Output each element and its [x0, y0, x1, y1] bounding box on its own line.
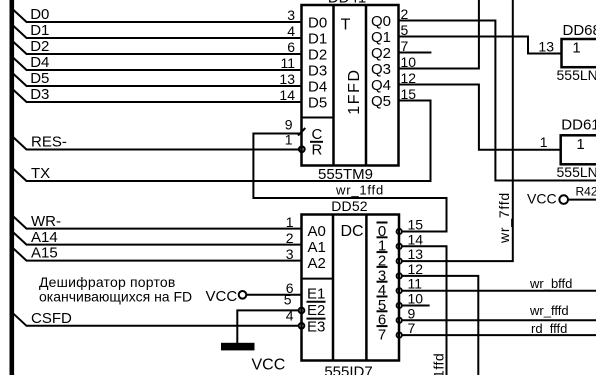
svg-text:VCC: VCC	[206, 288, 238, 305]
svg-text:wr_bffd: wr_bffd	[529, 276, 572, 291]
svg-text:E3: E3	[307, 318, 325, 335]
svg-text:D0: D0	[30, 6, 49, 23]
wire D4	[13, 58, 302, 71]
svg-text:3: 3	[286, 246, 294, 262]
svg-text:13: 13	[538, 39, 554, 55]
svg-text:555TM9: 555TM9	[318, 166, 373, 183]
svg-text:9: 9	[285, 117, 293, 133]
wire to R42	[568, 199, 596, 201]
wire E1	[247, 294, 302, 296]
ground (power bar)	[221, 343, 255, 351]
svg-text:Q3: Q3	[371, 61, 391, 78]
wire D0	[13, 10, 302, 23]
node R inversion bubble	[299, 147, 305, 153]
svg-text:A14: A14	[31, 229, 58, 246]
wire overbar 4	[377, 281, 388, 283]
svg-text:D4: D4	[308, 78, 327, 95]
svg-text:1: 1	[540, 134, 548, 150]
svg-text:555LN1: 555LN1	[557, 67, 596, 83]
svg-text:11: 11	[408, 276, 423, 292]
svg-text:7: 7	[378, 327, 386, 344]
wire out1 wr_3ffd down to bottom edge	[402, 246, 447, 375]
wire overbar 6	[377, 310, 388, 312]
wire E2 overbar	[307, 301, 326, 303]
svg-text:6: 6	[287, 39, 295, 55]
svg-text:3: 3	[287, 7, 295, 23]
svg-text:10: 10	[401, 54, 417, 70]
bus (vertical data/address bus trunk)	[10, 0, 15, 375]
wire A14	[13, 232, 302, 245]
svg-text:9: 9	[408, 305, 416, 321]
wire DD52 E section divider	[302, 278, 334, 280]
wire clock slash	[298, 128, 305, 136]
wire E2 to power bar	[237, 310, 298, 343]
node output bubble 6	[397, 318, 402, 323]
svg-text:Q4: Q4	[371, 77, 391, 94]
wire CSFD	[13, 313, 299, 326]
svg-text:оканчивающихся на FD: оканчивающихся на FD	[39, 289, 192, 305]
wire overbar 3	[377, 266, 388, 268]
wire RES-	[13, 137, 299, 150]
svg-text:TX: TX	[31, 165, 50, 182]
wire overbar 2	[377, 251, 388, 253]
wire DD52 divider left	[332, 215, 335, 361]
svg-text:2: 2	[286, 230, 294, 246]
svg-text:D2: D2	[308, 46, 327, 63]
svg-text:DD41: DD41	[328, 0, 366, 7]
wire D5	[13, 74, 302, 87]
wire D2	[13, 42, 302, 55]
svg-text:D2: D2	[30, 38, 49, 55]
svg-text:14: 14	[408, 231, 424, 247]
svg-text:D5: D5	[30, 70, 49, 87]
node E3 bubble	[299, 323, 305, 329]
wire TM9 divider left	[332, 5, 335, 166]
svg-text:1FFD: 1FFD	[346, 68, 363, 114]
svg-text:wr_7ffd: wr_7ffd	[496, 192, 512, 244]
wire DD52 divider right	[365, 215, 368, 361]
wire out5 stub	[402, 305, 430, 307]
svg-text:wr_1ffd: wr_1ffd	[431, 353, 447, 375]
wire E3 overbar	[307, 318, 326, 320]
wire out2 wr_7ffd up to top edge	[402, 0, 513, 261]
svg-text:1: 1	[572, 40, 580, 57]
node output bubble 7	[397, 332, 402, 337]
wire A15	[13, 248, 302, 261]
svg-text:1: 1	[286, 214, 294, 230]
wire TM9 CR section divider	[302, 117, 334, 119]
svg-text:D3: D3	[308, 62, 327, 79]
svg-text:5: 5	[401, 22, 409, 38]
svg-text:555LN1: 555LN1	[557, 164, 596, 180]
svg-text:555ID7: 555ID7	[324, 364, 372, 375]
wire overbar 7	[377, 325, 388, 327]
svg-text:CSFD: CSFD	[31, 310, 72, 327]
svg-text:1: 1	[576, 136, 584, 153]
svg-text:DD68: DD68	[563, 22, 596, 39]
svg-text:7: 7	[408, 320, 416, 336]
wire overbar 5	[377, 296, 388, 298]
svg-text:13: 13	[279, 71, 295, 87]
svg-text:12: 12	[401, 70, 417, 86]
svg-text:D3: D3	[30, 86, 49, 103]
svg-text:RES-: RES-	[31, 134, 67, 151]
diagram DD52 555ID7 decoder outer box	[302, 215, 400, 361]
wire Q0 (pin 2) long route to right edge	[399, 21, 596, 181]
svg-text:C: C	[312, 126, 323, 143]
node VCC circle	[559, 195, 568, 204]
svg-text:wr_1ffd: wr_1ffd	[335, 183, 384, 198]
svg-text:Q2: Q2	[371, 45, 391, 62]
svg-text:T: T	[341, 17, 351, 34]
wire out6 wr_fffd to right edge	[402, 319, 596, 321]
svg-text:D1: D1	[308, 30, 327, 47]
svg-text:D5: D5	[308, 94, 327, 111]
svg-text:5: 5	[284, 292, 292, 308]
svg-text:D1: D1	[30, 22, 49, 39]
svg-text:A1: A1	[308, 239, 326, 256]
svg-text:14: 14	[279, 87, 295, 103]
svg-text:D0: D0	[308, 14, 327, 31]
wire Q2 (pin 7) stub	[399, 52, 432, 54]
svg-text:VCC: VCC	[252, 357, 286, 374]
svg-text:WR-: WR-	[31, 213, 61, 230]
svg-text:12: 12	[408, 261, 424, 277]
wire out7 rd_fffd to right edge	[402, 334, 596, 336]
wire D3	[13, 90, 302, 103]
node E2 bubble	[299, 308, 305, 314]
node output bubble 2	[397, 258, 402, 263]
svg-text:4: 4	[287, 23, 295, 39]
svg-text:A0: A0	[308, 223, 326, 240]
node output bubble 5	[397, 303, 402, 308]
wire WR-	[13, 216, 302, 229]
svg-text:7: 7	[401, 38, 409, 54]
wire Q3 (pin 10) up to top edge	[399, 0, 479, 69]
op-amp U1 : register DD41 555TM9 outer box	[302, 5, 399, 166]
wire TX (net to Q5)	[13, 101, 431, 182]
svg-text:A2: A2	[308, 255, 326, 272]
wire overbar 0	[377, 222, 388, 224]
node output bubble 3	[397, 273, 402, 278]
node output bubble 1	[397, 244, 402, 249]
wire R overbar	[310, 141, 323, 143]
wire pin9 clock (wr_1ffd to C)	[253, 134, 446, 232]
transistor Q1 : inverter DD61 555LN box	[561, 135, 596, 164]
wire Q1 (pin 5) to DD68	[399, 37, 562, 54]
svg-text:DC: DC	[341, 223, 364, 240]
node VCC circle E1	[239, 291, 247, 299]
node output bubble 4	[397, 288, 402, 293]
svg-text:rd_fffd: rd_fffd	[531, 321, 567, 336]
transistor Q2 : inverter DD68 555LN box	[562, 39, 596, 67]
svg-text:wr_fffd: wr_fffd	[529, 303, 569, 318]
svg-text:Q1: Q1	[371, 29, 391, 46]
wire D1	[13, 26, 302, 39]
svg-text:VCC: VCC	[527, 191, 557, 207]
svg-text:Q0: Q0	[371, 13, 391, 30]
svg-text:11: 11	[280, 55, 295, 71]
svg-text:15: 15	[401, 86, 417, 102]
svg-text:10: 10	[408, 291, 424, 307]
svg-text:R: R	[312, 142, 323, 159]
wire out4 wr_bffd to right edge	[402, 290, 596, 292]
svg-text:D4: D4	[30, 54, 49, 71]
svg-text:Q5: Q5	[371, 93, 391, 110]
node output bubble 0	[397, 229, 402, 234]
svg-text:2: 2	[401, 6, 409, 22]
wire out3 down to bottom edge	[402, 276, 478, 375]
wire TM9 divider right	[365, 5, 368, 166]
wire overbar 1	[377, 236, 388, 238]
svg-text:A15: A15	[31, 245, 58, 262]
svg-text:DD52: DD52	[331, 198, 368, 214]
svg-text:15: 15	[408, 217, 424, 233]
svg-text:DD61: DD61	[561, 117, 596, 134]
svg-text:E2: E2	[307, 302, 325, 319]
wire Q4 (pin 12) to DD61	[399, 85, 561, 150]
svg-text:R42: R42	[576, 185, 596, 199]
svg-text:13: 13	[408, 246, 424, 262]
svg-text:E1: E1	[307, 286, 325, 303]
